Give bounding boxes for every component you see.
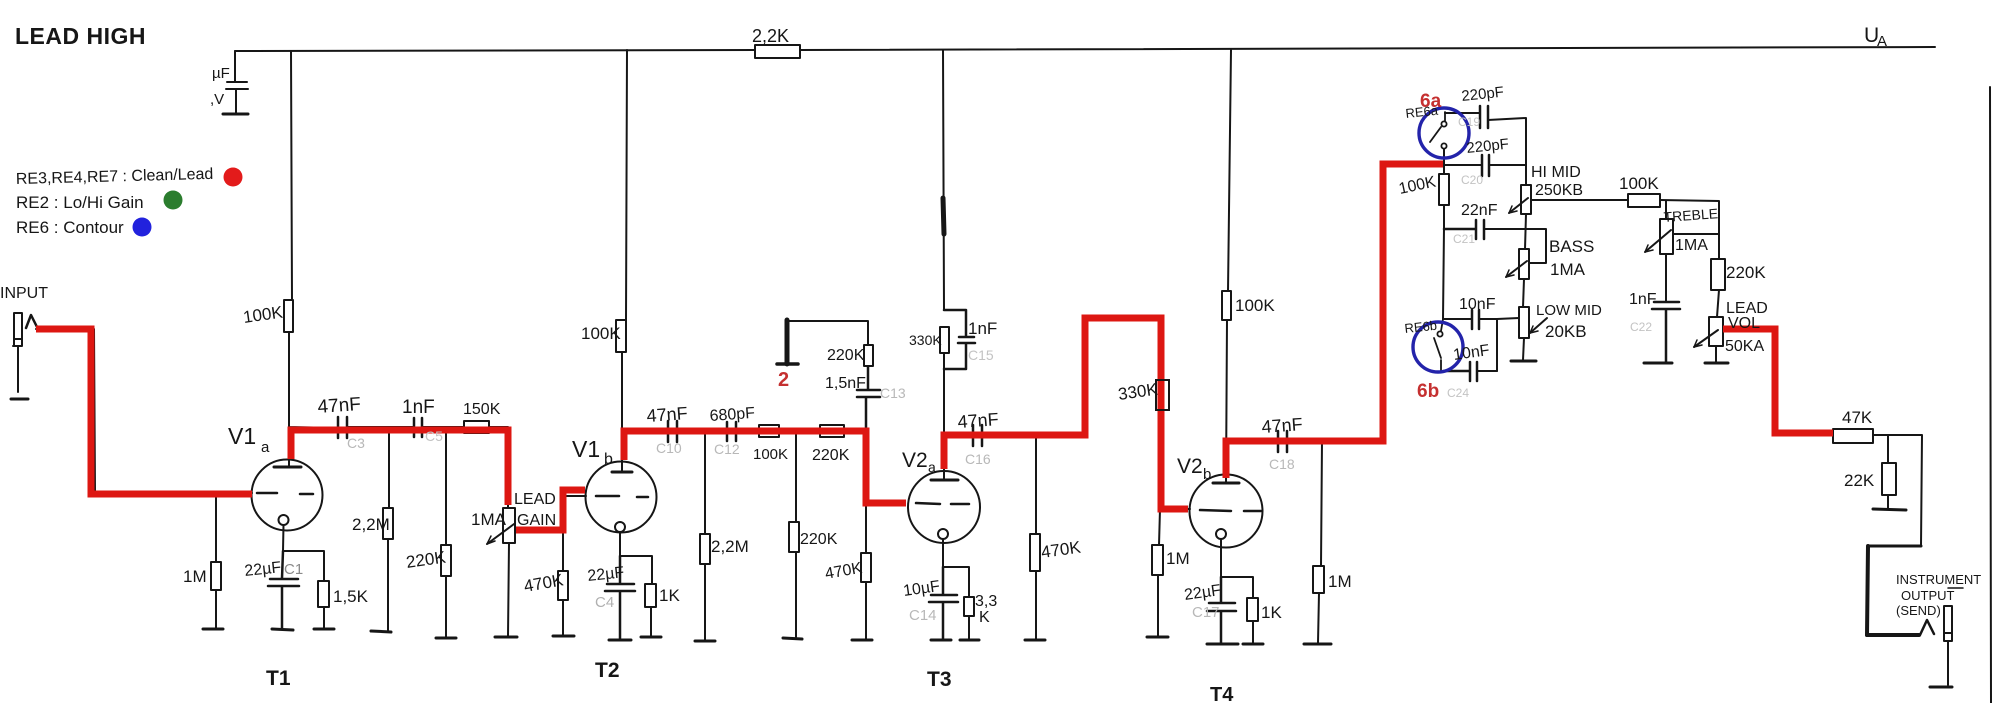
svg-text:2,2M: 2,2M [352, 515, 390, 534]
svg-text:a: a [261, 439, 270, 456]
wire: 150K to LEAD GAIN pot [489, 427, 508, 508]
svg-text:1,5nF: 1,5nF [825, 375, 866, 392]
wire: 100K to 220K [779, 430, 820, 432]
wire: 220pF to right riser [1488, 118, 1526, 185]
ground: C17 ground [1207, 643, 1238, 646]
ground: C1 ground [272, 629, 293, 630]
resistor 100K (V2b plate) [1222, 291, 1231, 320]
wire: V1b cathode [620, 532, 652, 636]
svg-text:A: A [1877, 33, 1887, 50]
resistor 2,2M [388, 427, 389, 631]
ground: output jack ground [1930, 686, 1952, 689]
svg-text:20KB: 20KB [1545, 322, 1587, 341]
wire: grid node to V2b [1160, 508, 1190, 510]
resistor 1M (V1a grid leak) [215, 493, 217, 628]
svg-text:b: b [604, 451, 613, 468]
svg-text:2,2K: 2,2K [752, 26, 789, 46]
wire: LEAD VOL to ground [1715, 346, 1717, 362]
wire: TREBLE to 1nF [1665, 254, 1667, 301]
legend dot red (Clean/Lead) [224, 168, 243, 187]
capacitor 1,5nF C13 [857, 366, 880, 431]
svg-text:C21: C21 [1453, 232, 1475, 246]
wire: LEAD GAIN wiper to V1b grid [515, 490, 586, 530]
svg-text:BASS: BASS [1549, 237, 1594, 256]
svg-text:150K: 150K [463, 401, 501, 418]
wire: V2b plate to output node [1226, 320, 1278, 483]
wire: RE6b top node to 10nF [1443, 318, 1471, 320]
legend dot green (Lo/Hi Gain) [164, 191, 183, 210]
wire: HI MID to BASS [1525, 214, 1526, 249]
svg-text:2: 2 [778, 369, 789, 391]
svg-text:C3: C3 [347, 435, 365, 451]
wire: underline of INSTRUMENT label [1948, 587, 1963, 589]
wire: red signal path V1b plate to V2a grid [624, 431, 906, 503]
wire: treble top stub [1665, 201, 1667, 219]
svg-text:220K: 220K [827, 347, 865, 364]
relay RE6a contacts [1444, 112, 1446, 121]
wire: V1a cathode [283, 525, 324, 628]
svg-text:b: b [1203, 466, 1211, 483]
svg-text:C4: C4 [595, 594, 614, 611]
ground: 1K ground [641, 636, 661, 639]
svg-text:1K: 1K [659, 586, 680, 605]
resistor 470K (V2a output load) [1035, 435, 1037, 639]
resistor 1,5K (V1a cathode) [318, 581, 329, 607]
svg-text:C5: C5 [425, 428, 443, 444]
svg-text:LOW MID: LOW MID [1536, 302, 1602, 319]
capacitor 10nF C23 [1472, 310, 1479, 329]
capacitor 22µF C4 (V1b cathode bypass) [605, 556, 635, 639]
svg-text:µF: µF [212, 65, 230, 82]
ground: C14 ground [931, 639, 951, 642]
capacitor 47nF (V1a coupling) [338, 417, 347, 438]
wire: V2b cathode [1221, 539, 1253, 643]
capacitor 1nF C22 [1652, 302, 1680, 362]
wire: rail drop to V1b plate resistor [626, 50, 627, 320]
svg-text:47K: 47K [1842, 408, 1873, 427]
wire: red signal path LEAD VOL to send [1723, 329, 1833, 433]
ground: tone stack ground [1511, 360, 1536, 363]
ground: 3,3K ground [960, 639, 979, 642]
resistor 330K (V2a plate) [940, 327, 949, 353]
wire: 220K to test point 2 [787, 321, 868, 345]
resistor 100K (slope) [1443, 166, 1445, 228]
svg-text:1M: 1M [1166, 549, 1190, 568]
wire: rail drop to V1a plate resistor [291, 51, 292, 300]
svg-text:C15: C15 [968, 347, 994, 363]
capacitor 47nF C10 (V1b coupling) [668, 421, 677, 442]
capacitor 220pF C20 [1482, 155, 1489, 176]
wire: 10nF to low mid node [1479, 318, 1519, 371]
triode V2a [908, 471, 980, 543]
svg-text:1M: 1M [183, 567, 207, 586]
svg-text:C10: C10 [656, 440, 682, 456]
svg-text:2,2M: 2,2M [711, 537, 749, 556]
svg-text:RE6 : Contour: RE6 : Contour [16, 218, 124, 237]
svg-text:V1: V1 [228, 423, 256, 449]
capacitor 220pF C19 [1480, 106, 1488, 128]
resistor 2,2K (rail dropping resistor) [755, 45, 800, 58]
svg-text:1nF: 1nF [402, 397, 435, 418]
svg-text:V2: V2 [902, 449, 928, 472]
wire: node at RE6a bottom [1444, 149, 1482, 166]
wire: V2a cathode [943, 539, 969, 639]
ground: 2,2M ground [371, 631, 391, 632]
svg-text:3,3: 3,3 [975, 593, 997, 610]
triode V1a [252, 460, 323, 531]
svg-text:T4: T4 [1210, 684, 1234, 703]
wire: HI MID wiper to 100K [1531, 199, 1628, 201]
svg-text:1,5K: 1,5K [333, 587, 369, 606]
capacitor 10nF C24 [1444, 362, 1477, 381]
svg-text:680pF: 680pF [709, 405, 756, 425]
capacitor 1nF [414, 418, 422, 437]
svg-text:C13: C13 [880, 385, 906, 401]
svg-text:C12: C12 [714, 441, 740, 457]
wire: input jack to V1a grid [36, 329, 252, 493]
svg-text:VOL: VOL [1728, 315, 1760, 332]
output jack J2 (INSTRUMENT OUTPUT SEND) [1944, 606, 1952, 685]
resistor 330K (series to V2b grid) [1156, 380, 1169, 410]
output jack tip contact [1920, 620, 1934, 635]
legend dot blue (Contour) [133, 218, 152, 237]
svg-text:47nF: 47nF [317, 394, 362, 418]
svg-text:a: a [928, 459, 936, 475]
svg-text:1MA: 1MA [1675, 237, 1708, 254]
ground: 470K ground [553, 635, 574, 638]
svg-text:C1: C1 [284, 561, 303, 578]
resistor 1M (V2b grid leak) [1158, 509, 1160, 636]
wire: 47nF to 680pF [677, 430, 727, 432]
ground: 1M ground [1304, 643, 1331, 646]
wire: rail drop to V2a plate resistor (with ink blotch) [943, 50, 944, 309]
resistor 1M (output load) [1318, 441, 1322, 643]
triode V2b [1190, 475, 1263, 548]
svg-text:22nF: 22nF [1461, 202, 1498, 219]
svg-text:220K: 220K [1726, 263, 1766, 282]
potentiometer TREBLE 1MA [1660, 219, 1673, 254]
potentiometer HI MID 250KB [1521, 185, 1531, 214]
wire: 47nF to corner node [982, 434, 1085, 436]
svg-text:47nF: 47nF [646, 403, 688, 426]
svg-text:330K: 330K [909, 332, 942, 348]
resistor 22K (output divider) [1887, 435, 1889, 508]
resistor 330K (series, outline over red path) [1156, 380, 1169, 410]
wire: plate resistor chain to V2a plate [944, 353, 973, 480]
svg-text:250KB: 250KB [1535, 182, 1583, 199]
ground: 1K ground [1243, 643, 1263, 646]
ground: 22K ground [1873, 509, 1906, 510]
svg-text:1M: 1M [1328, 572, 1352, 591]
capacitor: supply filter cap (µF / V) [226, 51, 248, 113]
svg-text:1nF: 1nF [1629, 291, 1657, 308]
ground: 220K ground [783, 638, 802, 639]
potentiometer LOW MID 20KB [1519, 307, 1529, 338]
wire: 22nF to bass bracket [1484, 229, 1546, 263]
resistor 220K [445, 427, 447, 637]
svg-text:HI MID: HI MID [1531, 164, 1581, 181]
resistor 470K (V1b grid leak) [562, 496, 564, 635]
svg-text:C19: C19 [1458, 115, 1480, 129]
wire: V1b plate to output node [622, 352, 668, 472]
capacitor 22µF C1 (V1a cathode bypass) [268, 551, 299, 628]
wire: 47nF to tone stack riser [1287, 440, 1383, 442]
svg-text:C22: C22 [1630, 320, 1652, 334]
svg-text:1K: 1K [1261, 603, 1282, 622]
svg-text:6b: 6b [1417, 381, 1439, 402]
ground: 470K ground [852, 639, 872, 642]
svg-text:V2: V2 [1177, 455, 1203, 478]
svg-text:1nF: 1nF [968, 319, 997, 338]
wire: V1a plate to output node [289, 332, 338, 467]
test point 2 [785, 320, 790, 364]
ground: 220K ground [436, 637, 456, 640]
wire: 220K to V2a grid node [844, 430, 866, 432]
triode V1b [586, 462, 657, 533]
svg-text:RE2 : Lo/Hi Gain: RE2 : Lo/Hi Gain [16, 193, 144, 212]
wire: 47K to output corner [1873, 435, 1922, 546]
ground: 1M ground [203, 628, 223, 631]
ground: 2,2M ground [695, 640, 715, 643]
wire: 680pF to 100K [736, 430, 759, 432]
svg-text:LEAD: LEAD [514, 491, 556, 508]
ground: C4 ground [609, 639, 631, 642]
wire: red signal path V2a plate to V2b grid [944, 318, 1188, 509]
wire: 10nF C24 to node [1477, 370, 1497, 372]
svg-text:C17: C17 [1192, 604, 1220, 621]
relay RE6b contacts [1441, 319, 1443, 331]
svg-text:47nF: 47nF [957, 409, 999, 432]
svg-text:C18: C18 [1269, 456, 1295, 472]
resistor 2,2M (V1b) [704, 431, 706, 640]
svg-text:C20: C20 [1461, 173, 1483, 187]
ground: 1,5K ground [314, 628, 334, 631]
svg-text:C16: C16 [965, 451, 991, 467]
wire: riser to RE6b [1443, 228, 1444, 319]
wire: 47nF to 1nF [347, 426, 414, 428]
input jack J1 [13, 313, 22, 392]
svg-text:220K: 220K [800, 531, 838, 548]
svg-text:10nF: 10nF [1459, 296, 1496, 313]
wire: B+ supply top rail [235, 50, 755, 51]
wire: 1nF to 150K [422, 426, 464, 428]
resistor 3,3K (V2a cathode) [964, 597, 974, 616]
svg-text:(SEND): (SEND) [1896, 603, 1941, 618]
svg-text:1MA: 1MA [1550, 260, 1586, 279]
svg-text:T1: T1 [266, 667, 291, 690]
resistor 220K (to LEAD VOL) [1711, 259, 1725, 290]
capacitor 47nF C18 (V2b coupling) [1278, 431, 1287, 452]
svg-text:,V: ,V [210, 91, 224, 108]
resistor 100K (horizontal, tone) [1628, 194, 1660, 207]
wire: red signal path input to V1a grid [36, 329, 252, 494]
svg-text:T2: T2 [595, 659, 620, 682]
capacitor 22nF C21 [1444, 220, 1484, 239]
svg-text:OUTPUT: OUTPUT [1901, 588, 1955, 603]
wire: LOW MID to ground [1523, 338, 1524, 360]
resistor 100K (horizontal, series) [759, 425, 779, 437]
relay RE6a (blue circle) [1419, 108, 1469, 158]
wire: LEAD GAIN bottom to ground [508, 543, 509, 636]
potentiometer LEAD GAIN 1MA [503, 508, 515, 543]
ground: LEAD GAIN ground [495, 636, 517, 639]
resistor 220K (to ground at node) [795, 431, 797, 637]
svg-text:INPUT: INPUT [0, 285, 48, 302]
wire: red signal path V1a plate to LEAD GAIN [291, 430, 508, 505]
ground: 1nF ground [1644, 362, 1672, 365]
svg-text:GAIN: GAIN [517, 512, 556, 529]
svg-text:100K: 100K [581, 324, 621, 343]
resistor 220K (test point branch) [864, 345, 873, 366]
svg-text:50KA: 50KA [1725, 338, 1764, 355]
capacitor 47nF C16 (V2a coupling) [973, 425, 982, 446]
ground: filter cap ground bar [223, 113, 248, 116]
relay RE6b (blue circle) [1413, 322, 1463, 372]
capacitor 10µF C14 (V2a cathode bypass) [929, 567, 958, 639]
potentiometer LEAD VOL 50KA [1709, 317, 1723, 346]
svg-text:LEAD HIGH: LEAD HIGH [15, 23, 146, 49]
resistor 220K (horizontal, series) [820, 425, 844, 437]
svg-text:100K: 100K [1235, 296, 1275, 315]
svg-text:100K: 100K [753, 446, 788, 463]
ground: 470K ground [1025, 639, 1045, 642]
input jack tip contact [26, 315, 37, 328]
capacitor 1nF C15 (parallel with 330K) [944, 310, 975, 369]
svg-text:T3: T3 [927, 668, 952, 691]
wire: rail drop to V2b plate resistor [1228, 50, 1231, 291]
svg-text:1MA: 1MA [471, 510, 507, 529]
resistor 100K (V1a plate) [284, 300, 293, 332]
capacitor 680pF C12 [727, 422, 736, 441]
resistor 100K (V1b plate) [616, 320, 626, 352]
svg-text:47nF: 47nF [1261, 414, 1303, 437]
svg-text:220K: 220K [812, 447, 850, 464]
page border line at right edge [1990, 87, 1991, 703]
svg-text:100K: 100K [1619, 174, 1659, 193]
svg-text:K: K [979, 609, 990, 626]
svg-text:INSTRUMENT: INSTRUMENT [1896, 572, 1981, 587]
wire: 220K to LEAD VOL [1717, 290, 1719, 317]
wire: BASS to LOW MID [1523, 279, 1524, 307]
ground: input jack ground [11, 398, 28, 401]
wire: 220pF to riser [1489, 164, 1526, 166]
svg-text:C14: C14 [909, 607, 937, 624]
resistor 1K (V2b cathode) [1247, 598, 1258, 621]
wire: 100K to treble corner [1660, 200, 1719, 259]
svg-text:V1: V1 [572, 436, 600, 462]
resistor 150K (horizontal) [464, 421, 489, 433]
svg-text:22K: 22K [1844, 471, 1875, 490]
resistor 1K (V1b cathode) [645, 584, 656, 607]
resistor 470K (V2a grid leak) [865, 503, 867, 639]
wire: top rail right of 2,2K to UA [800, 47, 1935, 50]
potentiometer BASS 1MA [1519, 249, 1529, 279]
wire: red signal path LEAD GAIN wiper to V1b grid [516, 490, 585, 530]
ground: 1M ground [1147, 636, 1168, 639]
wire: thick send line [1868, 545, 1921, 548]
svg-text:C24: C24 [1447, 386, 1469, 400]
wire: red signal path V2b plate to tone stack [1226, 164, 1443, 478]
resistor 47K (horizontal, output) [1833, 429, 1873, 443]
ground: LEAD VOL ground [1705, 362, 1728, 365]
capacitor 22µF C17 (V2b cathode bypass) [1207, 577, 1236, 643]
wire: RE6a top contact to 220pF [1445, 113, 1480, 117]
